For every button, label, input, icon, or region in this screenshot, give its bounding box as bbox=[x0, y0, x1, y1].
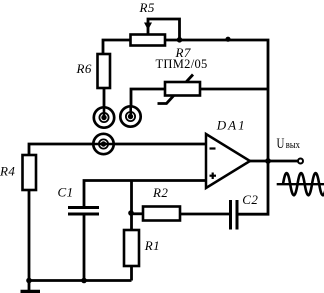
svg-text:R2: R2 bbox=[152, 185, 168, 200]
svg-text:DA1: DA1 bbox=[216, 118, 247, 133]
svg-text:R4: R4 bbox=[0, 164, 15, 179]
svg-text:R5: R5 bbox=[139, 0, 155, 15]
svg-text:U: U bbox=[277, 134, 285, 151]
svg-text:R1: R1 bbox=[144, 238, 160, 253]
svg-text:C2: C2 bbox=[242, 192, 258, 207]
svg-text:C1: C1 bbox=[58, 185, 74, 200]
svg-text:R6: R6 bbox=[76, 61, 92, 76]
svg-text:вых: вых bbox=[286, 139, 300, 151]
svg-text:ТПМ2/05: ТПМ2/05 bbox=[156, 57, 208, 71]
